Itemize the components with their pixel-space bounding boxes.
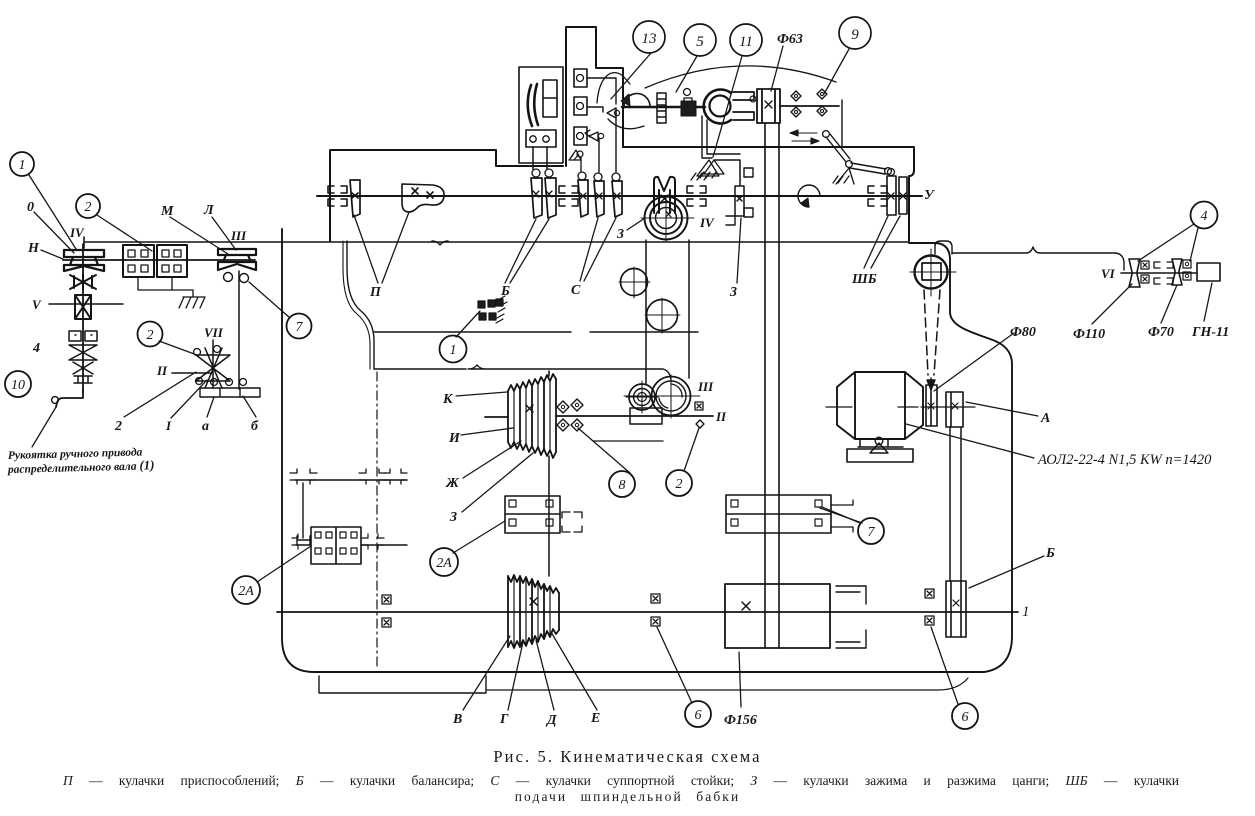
svg-text:П: П [369, 285, 382, 300]
balloon 13 [633, 21, 665, 53]
balloon 2A center [430, 548, 458, 576]
svg-text:Д: Д [545, 713, 557, 728]
gearbox M block left [123, 245, 154, 277]
leader F80 [934, 333, 1014, 391]
vertical link III to VII [238, 271, 240, 389]
rollers of VII unit [194, 349, 201, 356]
fork clamp of pulley IV [654, 177, 675, 213]
svg-text:VII: VII [204, 325, 224, 340]
cam squares near pulley B [925, 589, 934, 598]
line y332 [374, 331, 698, 333]
balloon 1 center [440, 336, 467, 363]
leader 6 left [657, 627, 692, 703]
ground symbol [179, 297, 205, 308]
leader Zh [463, 441, 521, 478]
svg-text:2А: 2А [436, 556, 452, 571]
balloon 5 [684, 24, 716, 56]
svg-text:4: 4 [1201, 209, 1208, 224]
gearbox 2A center [505, 496, 560, 533]
svg-text:0: 0 [27, 200, 34, 215]
svg-text:2: 2 [676, 477, 683, 492]
caption: figure title [0, 747, 1255, 767]
caption: legend line 2 [0, 789, 1255, 805]
headstock top cover outline right [623, 147, 914, 241]
leader F63 [771, 46, 783, 91]
svg-text:З: З [449, 510, 457, 525]
right corner piece [935, 241, 952, 254]
right top line y253 with brace [952, 247, 1124, 270]
shaft II line [485, 416, 713, 417]
svg-text:а: а [202, 419, 209, 434]
bevel gear pair under H [70, 275, 96, 289]
gear block 2A left [311, 527, 361, 564]
cover arc wide [645, 66, 836, 88]
svg-text:Рукоятка ручного привода: Рукоятка ручного привода [8, 446, 143, 462]
double arrows [790, 130, 817, 136]
leader Z cone [462, 453, 533, 512]
pulley H (V-sheave) [64, 250, 104, 271]
svg-text:2: 2 [114, 419, 122, 434]
leader 2 center [684, 428, 699, 471]
rotation arrow on camshaft [798, 185, 820, 207]
svg-text:Ф80: Ф80 [1010, 325, 1036, 340]
clamp lower link [702, 116, 740, 158]
leader 2 mid-left [159, 341, 197, 355]
cone pulley V/G/D/E [508, 575, 559, 648]
roller square 3 [574, 127, 587, 145]
link square2 right [587, 107, 603, 112]
camshaft line [317, 195, 922, 197]
leader 2A left [257, 546, 311, 582]
pulley shaft line (H-M-L) [63, 259, 255, 261]
lower small gears [74, 376, 92, 383]
bracket steps right of gearbox7 [831, 500, 853, 532]
svg-text:2: 2 [85, 200, 92, 215]
svg-text:С: С [571, 283, 581, 298]
leader 4 double [1138, 224, 1198, 261]
svg-text:2: 2 [147, 328, 154, 343]
leader G cone [508, 642, 523, 710]
leader ShB double [864, 216, 900, 268]
balloon 6 right [952, 703, 978, 729]
bearing pair right of IV [687, 186, 706, 206]
svg-text:Б: Б [500, 284, 510, 299]
balloon 7 left [287, 314, 312, 339]
svg-text:6: 6 [962, 710, 969, 725]
pulley L/III double sheave [218, 249, 256, 270]
svg-text:8: 8 [619, 478, 626, 493]
svg-text:Е: Е [590, 711, 600, 726]
pulley A [946, 392, 963, 427]
idler gear 2 [647, 300, 678, 331]
svg-text:1: 1 [450, 343, 457, 358]
casting S-wall inner [343, 241, 370, 369]
vertical shaft cone to bottom [548, 371, 550, 576]
headstock top cover duct [566, 27, 623, 166]
small gear III [629, 384, 655, 410]
shaft VI line [1121, 272, 1197, 274]
heavy block left of clamp [681, 101, 696, 116]
svg-text:1: 1 [19, 158, 26, 173]
balancer spring arcs [528, 84, 538, 126]
svg-text:Ф156: Ф156 [724, 713, 757, 728]
belt lines pulley IV down [646, 240, 689, 384]
svg-text:Ж: Ж [445, 476, 460, 491]
leader C double [580, 218, 616, 281]
balloon 2 left [76, 194, 100, 218]
balloon 4 [1191, 202, 1218, 229]
side pulley with belt section [915, 256, 948, 289]
hatched pivot with roller [569, 150, 581, 160]
shaft I line [277, 611, 1018, 613]
svg-text:V: V [32, 297, 42, 312]
leader 1 center [456, 311, 480, 337]
svg-text:Н: Н [27, 241, 40, 256]
ratchet gear cluster (item 1) [478, 296, 507, 323]
diamond cams quad [791, 89, 827, 117]
svg-text:13: 13 [642, 31, 657, 47]
balloon 7 center [858, 518, 884, 544]
motor base [847, 449, 913, 462]
collet clamp C-ring [704, 89, 731, 123]
aux shaft right segment [780, 105, 839, 107]
headstock bottom line [84, 237, 909, 248]
cams B pair [531, 178, 556, 218]
leader 6 right [931, 627, 958, 704]
leader handle note [32, 407, 56, 447]
motor mount triangle [870, 443, 888, 453]
leader 1 left [29, 175, 76, 249]
gear block 4 on vertical shaft [75, 295, 91, 319]
svg-text:В: В [452, 712, 462, 727]
leader 13 [611, 53, 651, 99]
motor pulley F80 [926, 385, 937, 426]
balloon 10 [5, 371, 31, 397]
svg-text:5: 5 [696, 34, 704, 50]
balloon 2 mid-left [138, 322, 163, 347]
electric motor [837, 372, 923, 439]
svg-text:7: 7 [296, 320, 304, 335]
ShB cam bars [887, 176, 907, 215]
svg-text:Ф70: Ф70 [1148, 325, 1174, 340]
bearing pair before ShB [868, 186, 887, 206]
aux shaft segment [622, 106, 705, 108]
balloon 6 left [685, 701, 711, 727]
svg-text:11: 11 [739, 34, 753, 50]
leader I cone [461, 428, 513, 435]
leader F110 [1092, 284, 1132, 324]
svg-text:У: У [924, 188, 936, 203]
clamp link pivot [691, 160, 719, 180]
pulley F63 [757, 89, 780, 123]
pivot of Z bracket [700, 160, 724, 178]
svg-text:б: б [251, 419, 259, 434]
svg-text:3: 3 [729, 285, 737, 300]
leader B right [969, 556, 1044, 588]
shaft V line [49, 303, 123, 305]
svg-text:IV: IV [69, 225, 85, 240]
leader b [243, 396, 256, 417]
leader motor label [906, 424, 1034, 458]
machine body outline [282, 229, 1012, 672]
pawl B pair [585, 130, 598, 141]
small gear pair [69, 331, 97, 341]
roller on link [750, 96, 756, 102]
svg-text:Б: Б [1045, 546, 1055, 561]
leader K [456, 392, 507, 396]
spring zigzag [657, 93, 666, 123]
cams C triple [578, 180, 622, 217]
svg-text:М: М [160, 204, 174, 219]
headstock top cover outline left [330, 150, 563, 241]
pawl A [607, 108, 616, 118]
caption: legend line 1 [63, 773, 1179, 789]
mid line y545 [296, 544, 407, 546]
gear bearing block [630, 408, 662, 424]
gauge box GN-11 [1197, 263, 1220, 281]
base plate of VII unit [200, 388, 260, 397]
leader a [207, 397, 214, 417]
bottom tray long line [486, 678, 968, 690]
svg-text:АОЛ2-22-4 N1,5 KW n=1420: АОЛ2-22-4 N1,5 KW n=1420 [1037, 452, 1212, 468]
leader 7 right [822, 507, 860, 523]
dashed V-belt down to motor [924, 290, 940, 375]
svg-text:IV: IV [699, 215, 715, 230]
hanging shaft with flange [297, 483, 310, 544]
cam Z bracket [714, 160, 744, 216]
svg-text:И: И [448, 431, 461, 446]
balloon 2 center [666, 470, 692, 496]
left gear train: shaft line y480 [295, 479, 407, 481]
vertical link right [841, 100, 843, 147]
leader 2 left [97, 215, 152, 251]
cam P1 [350, 180, 360, 217]
leader H [41, 250, 63, 259]
svg-text:2А: 2А [238, 584, 254, 599]
svg-text:I: I [165, 418, 172, 433]
svg-text:II: II [156, 363, 168, 378]
bevel gear cross VII [196, 348, 230, 388]
line y369 with brace [468, 365, 671, 380]
leader 5 [676, 56, 697, 92]
svg-text:К: К [442, 392, 454, 407]
svg-text:9: 9 [851, 27, 859, 43]
shaft II stub [172, 372, 212, 374]
bearing on VI [1154, 262, 1173, 284]
leader M [170, 217, 228, 254]
svg-text:Л: Л [203, 203, 214, 218]
svg-text:1: 1 [1022, 604, 1030, 620]
idler gear 1 [621, 269, 648, 296]
belt A to B [950, 427, 961, 581]
cover hump curve [597, 73, 630, 103]
leader A [966, 402, 1038, 416]
svg-text:III: III [697, 379, 714, 394]
lever linkage [826, 134, 886, 174]
svg-text:10: 10 [11, 378, 25, 393]
svg-text:6: 6 [695, 708, 702, 723]
leader 7 left [249, 282, 290, 318]
cam squares on shaft I mid [651, 594, 660, 603]
leader 3 bracket [737, 218, 741, 283]
leader 8 [578, 428, 630, 473]
square cam near II end [695, 402, 703, 410]
clamp arms [733, 92, 754, 120]
bearing bracket right of 2A [562, 512, 582, 532]
clutch box F156 [725, 584, 830, 648]
diamond cams right of cone [557, 399, 583, 431]
leader 2A center [453, 521, 505, 553]
bearing pairs on y480 [290, 469, 317, 484]
leader D cone [536, 640, 554, 710]
big gear III [652, 377, 691, 416]
shaft VII vertical stub [212, 340, 214, 388]
camshaft left bearing [328, 186, 347, 206]
svg-text:Г: Г [499, 712, 509, 727]
roller square 2 [574, 97, 587, 115]
svg-text:4: 4 [32, 341, 40, 356]
leader V cone [463, 636, 510, 710]
main belt F63 to F156 [765, 123, 779, 648]
leader 0 [34, 212, 74, 253]
svg-text:Ф63: Ф63 [777, 32, 803, 47]
motor feet [858, 439, 903, 447]
links balancer to cams B [533, 147, 547, 169]
cone pulley K/I/Zh/Z [508, 374, 556, 458]
bottom tray box [319, 676, 486, 693]
svg-text:III: III [230, 228, 247, 243]
balloon 8 [609, 471, 635, 497]
push rods to cams C [599, 108, 616, 172]
svg-text:7: 7 [868, 525, 876, 540]
leader GN-11 [1204, 283, 1212, 321]
svg-text:II: II [715, 409, 727, 424]
leader F70 [1161, 285, 1177, 323]
roller square 1 [574, 69, 587, 87]
cam P2 curved plate [402, 184, 444, 212]
balloon 2A left [232, 576, 260, 604]
motor shaft line [921, 406, 975, 408]
vertical shaft of handle [82, 244, 84, 392]
svg-text:3: 3 [616, 227, 624, 242]
escapement arc with arrow [624, 93, 650, 107]
pulley B bottom [946, 581, 966, 637]
balancer lower block [526, 130, 556, 147]
leader 3 fork [627, 218, 645, 230]
leader E cone [551, 632, 597, 710]
leader I lower-left [171, 380, 207, 418]
leader F156 [739, 652, 741, 707]
roller on aux shaft [684, 89, 691, 96]
rollers under pulley III [224, 273, 233, 282]
leader 11 [713, 56, 742, 157]
gearbox 7 center [726, 495, 831, 533]
link square1 to pawl shaft [587, 78, 616, 104]
svg-text:ГН-11: ГН-11 [1191, 325, 1229, 340]
svg-text:А: А [1040, 411, 1050, 426]
bevel bowtie lower [69, 345, 97, 374]
lever pivot hatched [833, 168, 854, 184]
balancer slide [543, 80, 557, 117]
cam squares on shaft I left [382, 595, 391, 604]
pulley F110 [1129, 259, 1140, 287]
svg-text:Ф110: Ф110 [1073, 327, 1105, 342]
leader B double [505, 219, 549, 283]
balloon 9 [839, 17, 871, 49]
svg-text:VI: VI [1101, 266, 1116, 281]
svg-text:ШБ: ШБ [851, 272, 877, 287]
leader 2 lower-left [124, 372, 196, 417]
pulley F70 [1172, 259, 1182, 285]
casting S-wall outer [347, 241, 374, 369]
leader 7 center [820, 508, 862, 523]
balancer box [519, 67, 563, 163]
gearbox M block right [157, 245, 187, 277]
links to ground [138, 277, 193, 297]
hand crank [56, 390, 83, 407]
bearing brackets right of box [836, 586, 866, 648]
balloon 11 [730, 24, 762, 56]
pulley IV circles [645, 197, 688, 240]
leader P double [354, 212, 409, 283]
top cover brace mark y240 [432, 241, 448, 245]
balloon 1 left [10, 152, 34, 176]
leader 9 [824, 49, 849, 94]
vertical center line below S-wall [376, 372, 378, 670]
bearing pair mid [559, 186, 578, 206]
leader L [212, 217, 236, 250]
